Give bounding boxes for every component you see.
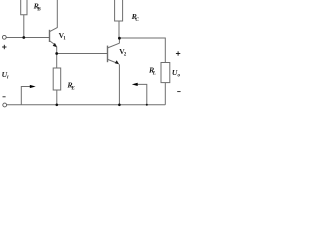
resistor RC body bbox=[115, 0, 123, 21]
minus sign input bbox=[3, 96, 6, 98]
transistor V2 collector diagonal bbox=[108, 43, 120, 48]
wire V1 emitter down to node bbox=[56, 47, 58, 69]
transistor V2 emitter diagonal bbox=[108, 59, 118, 63]
feedback arrow left head bbox=[30, 85, 36, 88]
feedback arrow right wire bbox=[137, 84, 146, 104]
svg-text:1: 1 bbox=[63, 36, 66, 41]
ground rail bbox=[7, 104, 166, 106]
resistor RE body bbox=[53, 68, 61, 90]
feedback arrow left wire bbox=[21, 87, 30, 105]
node dot RE/rail bbox=[56, 104, 59, 107]
resistor RL body bbox=[161, 63, 170, 83]
node dot V2 collector bbox=[118, 37, 121, 40]
transistor V1 emitter diagonal bbox=[50, 41, 57, 46]
input terminal + circle bbox=[2, 35, 6, 39]
svg-text:E: E bbox=[70, 86, 75, 92]
svg-text:L: L bbox=[152, 70, 156, 76]
svg-text:o: o bbox=[178, 72, 181, 78]
wire RB bottom to input node bbox=[23, 15, 25, 38]
transistor V1 base bar bbox=[49, 30, 51, 42]
svg-text:2: 2 bbox=[124, 53, 127, 58]
input terminal - circle bbox=[3, 103, 7, 107]
wire RC bottom to collector node bbox=[118, 21, 120, 38]
wire V2 collector up to node bbox=[118, 38, 120, 43]
resistor RB body bbox=[21, 0, 27, 15]
node dot V2 emitter/rail bbox=[118, 104, 121, 107]
node dot V1 emitter bbox=[55, 52, 58, 55]
svg-text:i: i bbox=[7, 75, 9, 81]
wire collector node to output corner bbox=[119, 38, 165, 63]
wire V1 collector up to supply bbox=[56, 0, 58, 28]
node dot arrow/rail bbox=[146, 104, 148, 106]
transistor V1 emitter arrowhead bbox=[53, 43, 57, 47]
wire input to V1 base bbox=[6, 37, 49, 39]
transistor V1 collector diagonal bbox=[50, 28, 58, 32]
wire emitter node to V2 base bbox=[57, 53, 108, 55]
wire RL bottom to rail end bbox=[164, 83, 166, 105]
node dot RB/input bbox=[22, 36, 25, 39]
svg-text:B: B bbox=[36, 6, 41, 12]
wire V2 emitter down to ground rail bbox=[118, 64, 120, 105]
plus sign output bbox=[176, 51, 180, 55]
feedback arrow right head bbox=[132, 83, 138, 86]
svg-text:C: C bbox=[135, 17, 139, 23]
wire RE bottom to ground rail bbox=[56, 90, 58, 105]
transistor V2 emitter arrowhead bbox=[115, 60, 119, 64]
transistor V2 base bar bbox=[107, 46, 109, 63]
minus sign output bbox=[177, 91, 180, 93]
plus sign input bbox=[2, 45, 6, 49]
